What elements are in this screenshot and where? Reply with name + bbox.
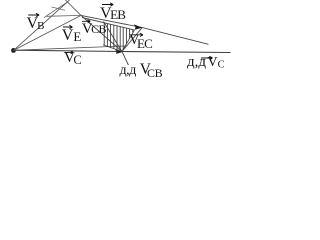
label V_E bbox=[62, 28, 82, 44]
node O (origin dot) bbox=[11, 48, 16, 53]
short shallow construction segment bbox=[52, 7, 66, 10]
vector O to EC endpoint (shallow fan line) bbox=[14, 46, 128, 50]
label V_EB bbox=[100, 6, 125, 22]
hatch vertical lines bbox=[104, 23, 133, 51]
steep line from top edge into vertex bbox=[66, 0, 82, 15]
line V_EC from arrow point down to node C bbox=[122, 28, 142, 52]
vector V_EB long line from vertex continuing right bbox=[81, 15, 209, 44]
label V_C bbox=[64, 51, 82, 66]
arrowhead of V_C at node C bbox=[115, 50, 123, 54]
label dd V_CB bbox=[120, 62, 163, 79]
hatch bottom edge bbox=[103, 45, 122, 52]
pointer line from node C to label dd V_CB bbox=[122, 52, 128, 66]
arrow over label V_EC bbox=[131, 33, 144, 36]
hatch top edge from vertex bbox=[82, 18, 135, 31]
wire baseline (V_C axis) bbox=[14, 50, 231, 52]
construction line upper-left (crosses V_B) bbox=[44, 2, 67, 17]
arrow over label V_C bbox=[65, 51, 74, 54]
arrow over label V_B bbox=[28, 13, 39, 16]
hatch right edge down to node C bbox=[122, 30, 135, 52]
label dd V_C bbox=[187, 55, 225, 71]
arrowhead of V_EB bbox=[134, 24, 143, 30]
hatch left edge bbox=[104, 22, 123, 52]
arrow over label V_EB bbox=[102, 3, 113, 6]
label V_EC bbox=[129, 33, 152, 49]
label V_B bbox=[27, 16, 45, 32]
arrow over label V_E bbox=[63, 25, 73, 28]
vector V_B (steep line from O exiting top) bbox=[14, 0, 70, 50]
label V_CB bbox=[82, 22, 106, 37]
vector V_E (O to vertex) bbox=[14, 15, 82, 50]
line V_CB from vertex to node C bbox=[81, 15, 122, 51]
arrow over label dd V_C bbox=[201, 56, 213, 59]
arrow over label V_CB bbox=[82, 20, 90, 23]
horizontal construction line into vertex bbox=[47, 14, 82, 17]
